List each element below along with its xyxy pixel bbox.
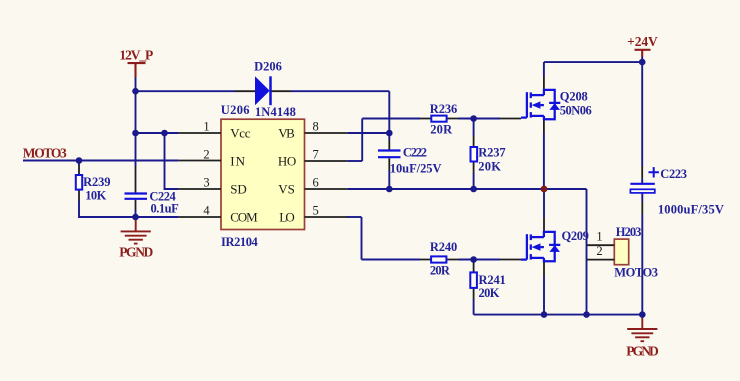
svg-text:1N4148: 1N4148 (255, 105, 296, 119)
wire +24V to Q208 drain (544, 61, 642, 63)
wire 12V vertical to C224 (135, 91, 137, 166)
svg-text:PGND: PGND (626, 343, 659, 358)
svg-text:50N06: 50N06 (560, 104, 592, 118)
resistor R240 (431, 256, 446, 262)
ground PGND right (627, 315, 657, 342)
node 12V bus (132, 88, 139, 95)
svg-text:1000uF/35V: 1000uF/35V (658, 203, 724, 217)
svg-text:Q209: Q209 (562, 229, 589, 243)
wire Q208 drain stub (543, 62, 545, 76)
U206 pin 7 (305, 160, 348, 162)
node Vcc b (161, 130, 168, 137)
svg-text:IN: IN (230, 154, 245, 169)
svg-text:5: 5 (313, 203, 319, 217)
capacitor C222 (378, 151, 401, 158)
wire H203 pin2 down to gnd bus (586, 260, 588, 315)
wire +24V down to C223 (641, 62, 643, 166)
svg-text:R241: R241 (479, 273, 506, 287)
svg-text:Vcc: Vcc (230, 126, 251, 141)
svg-text:2: 2 (203, 147, 209, 161)
svg-text:PGND: PGND (119, 245, 153, 260)
wire H203 pin1 to pin2 (586, 245, 588, 259)
transistor Q209 (521, 232, 560, 261)
svg-text:SD: SD (230, 182, 247, 197)
svg-text:C223: C223 (660, 167, 687, 181)
node COM (132, 214, 139, 221)
svg-text:U206: U206 (221, 103, 250, 117)
node gnd H203 (583, 311, 590, 318)
svg-text:R237: R237 (478, 146, 505, 160)
wire VB riser vertical (388, 91, 390, 133)
resistor R236 (431, 116, 446, 122)
ground PGND left (121, 217, 151, 244)
Q208 drain lead (543, 76, 545, 90)
wire +24V stem (641, 57, 643, 63)
wire HO riser up (361, 119, 363, 162)
wire LO pin to riser (347, 216, 362, 218)
node VS a (386, 186, 393, 193)
Q208 gate lead (500, 118, 521, 120)
U206 pin 5 (305, 216, 348, 218)
resistor R241 (470, 272, 477, 288)
H203 pin 2 (587, 259, 615, 261)
U206 pin 3 (179, 188, 221, 190)
C224 top lead (135, 166, 137, 193)
node gnd C223 (639, 311, 646, 318)
node gnd Q209 (541, 311, 548, 318)
node VS Q208 manual junction (541, 186, 548, 193)
svg-text:+24V: +24V (627, 34, 658, 49)
wire R239 bottom to COM line (79, 201, 179, 218)
svg-text:7: 7 (313, 147, 319, 161)
wire Vcc line (136, 132, 179, 134)
wire VS line (347, 188, 586, 190)
svg-text:8: 8 (313, 119, 319, 133)
svg-text:LO: LO (279, 210, 295, 225)
C223 top lead (641, 166, 643, 178)
wire LO to R240 (362, 259, 421, 261)
R239 leads (78, 165, 80, 201)
C223 bottom lead (641, 202, 643, 214)
power +24V symbol (635, 50, 651, 57)
wire top bus 12V_P to D206 (136, 90, 236, 92)
svg-text:Q208: Q208 (560, 89, 588, 103)
wire R241 bottom to gnd bus (473, 299, 475, 315)
svg-text:R239: R239 (83, 175, 110, 189)
wire C224 bottom to COM junction (135, 210, 137, 217)
wire D206 cathode to VB riser (291, 90, 389, 92)
capacitor C224 (125, 194, 148, 199)
svg-text:20R: 20R (430, 264, 451, 278)
wire VS down to H203 pin1 (586, 189, 588, 245)
wire VB pin to riser (347, 132, 389, 134)
svg-text:R236: R236 (430, 102, 457, 116)
svg-text:IR2104: IR2104 (221, 235, 259, 249)
transistor Q208 (521, 90, 560, 119)
C224 bottom lead (135, 200, 137, 210)
wire R237 top stub (473, 119, 475, 137)
C222 bottom lead (388, 158, 390, 170)
op-amp U206 IR2104 body (221, 119, 305, 229)
U206 pin 2 (179, 160, 221, 162)
wire R239 top stub (78, 161, 80, 166)
svg-text:D206: D206 (254, 59, 282, 73)
svg-text:10uF/25V: 10uF/25V (390, 162, 442, 176)
svg-text:H203: H203 (616, 225, 642, 239)
D206 anode lead (235, 90, 255, 92)
R237 leads (473, 136, 475, 173)
node Vcc a (132, 130, 139, 137)
svg-text:2: 2 (596, 244, 602, 258)
svg-text:MOTO3: MOTO3 (614, 266, 658, 280)
diode D206 (255, 76, 271, 105)
H203 pin 1 (587, 244, 615, 246)
node gate Q208 (470, 115, 477, 122)
svg-text:COM: COM (230, 210, 258, 225)
U206 pin 4 (179, 216, 221, 218)
wire C223 bottom stub (641, 193, 643, 202)
svg-text:12V_P: 12V_P (119, 47, 153, 62)
node VB (386, 130, 393, 137)
wire HO to R236 (362, 118, 420, 120)
svg-text:1: 1 (596, 230, 602, 244)
wire C222 bottom to VS (388, 171, 390, 190)
C222 top lead (388, 140, 390, 150)
power 12V_P symbol (128, 63, 146, 77)
svg-text:HO: HO (278, 154, 296, 169)
node MOTO3 (76, 157, 83, 164)
wire R236 to Q208 gate (459, 118, 501, 120)
U206 pin names (230, 126, 296, 225)
resistor R237 (471, 147, 478, 162)
wire R237 bottom to VS (473, 173, 475, 189)
U206 pin 6 (305, 188, 348, 190)
wire MOTO3 net (23, 160, 179, 162)
Q209 gate lead (500, 259, 521, 261)
R240 leads (420, 259, 459, 261)
wire R241 top stub (473, 260, 475, 263)
svg-text:10K: 10K (85, 189, 106, 203)
wire C223 bottom to gnd bus (641, 214, 643, 315)
Q208 source lead (543, 119, 545, 133)
capacitor C223 (630, 167, 659, 193)
H203 pin numbers (596, 230, 602, 258)
U206 pin 8 (305, 132, 348, 134)
svg-text:1: 1 (203, 119, 209, 133)
svg-text:0.1uF: 0.1uF (151, 202, 180, 216)
svg-text:20K: 20K (479, 286, 500, 300)
svg-text:20K: 20K (478, 159, 501, 173)
wire R240 to Q209 gate (459, 259, 501, 261)
node gate Q209 (470, 256, 477, 263)
svg-text:R240: R240 (430, 240, 457, 254)
wire ground bus (474, 314, 643, 316)
Q209 drain lead (543, 218, 545, 232)
svg-text:MOTO3: MOTO3 (23, 146, 67, 161)
svg-text:3: 3 (203, 175, 209, 189)
svg-text:VB: VB (278, 126, 295, 141)
wire LO riser down (361, 217, 363, 260)
node VS b (470, 186, 477, 193)
wire C222 top lead blue (388, 133, 390, 140)
wire HO pin to riser (347, 160, 362, 162)
svg-text:C222: C222 (403, 145, 427, 159)
D206 cathode lead (270, 90, 291, 92)
U206 pin 1 (179, 132, 221, 134)
wire C223 top stub (641, 178, 643, 183)
svg-text:4: 4 (203, 203, 210, 217)
connector H203 body (614, 239, 628, 265)
wire Q209 source to gnd bus (543, 276, 545, 315)
R236 leads (420, 118, 459, 120)
wire SD riser (165, 133, 179, 189)
svg-text:VS: VS (278, 182, 295, 197)
wire Q208 source to VS (543, 133, 545, 189)
U206 pin numbers (203, 119, 318, 217)
svg-text:6: 6 (313, 175, 319, 189)
resistor R239 (76, 175, 82, 190)
R241 leads (473, 262, 475, 299)
node +24V (639, 59, 646, 66)
Q209 source lead (543, 261, 545, 276)
wire Q209 drain stub (543, 189, 545, 218)
wire 12V_P stem to bus (135, 77, 137, 91)
svg-text:20R: 20R (430, 123, 453, 137)
